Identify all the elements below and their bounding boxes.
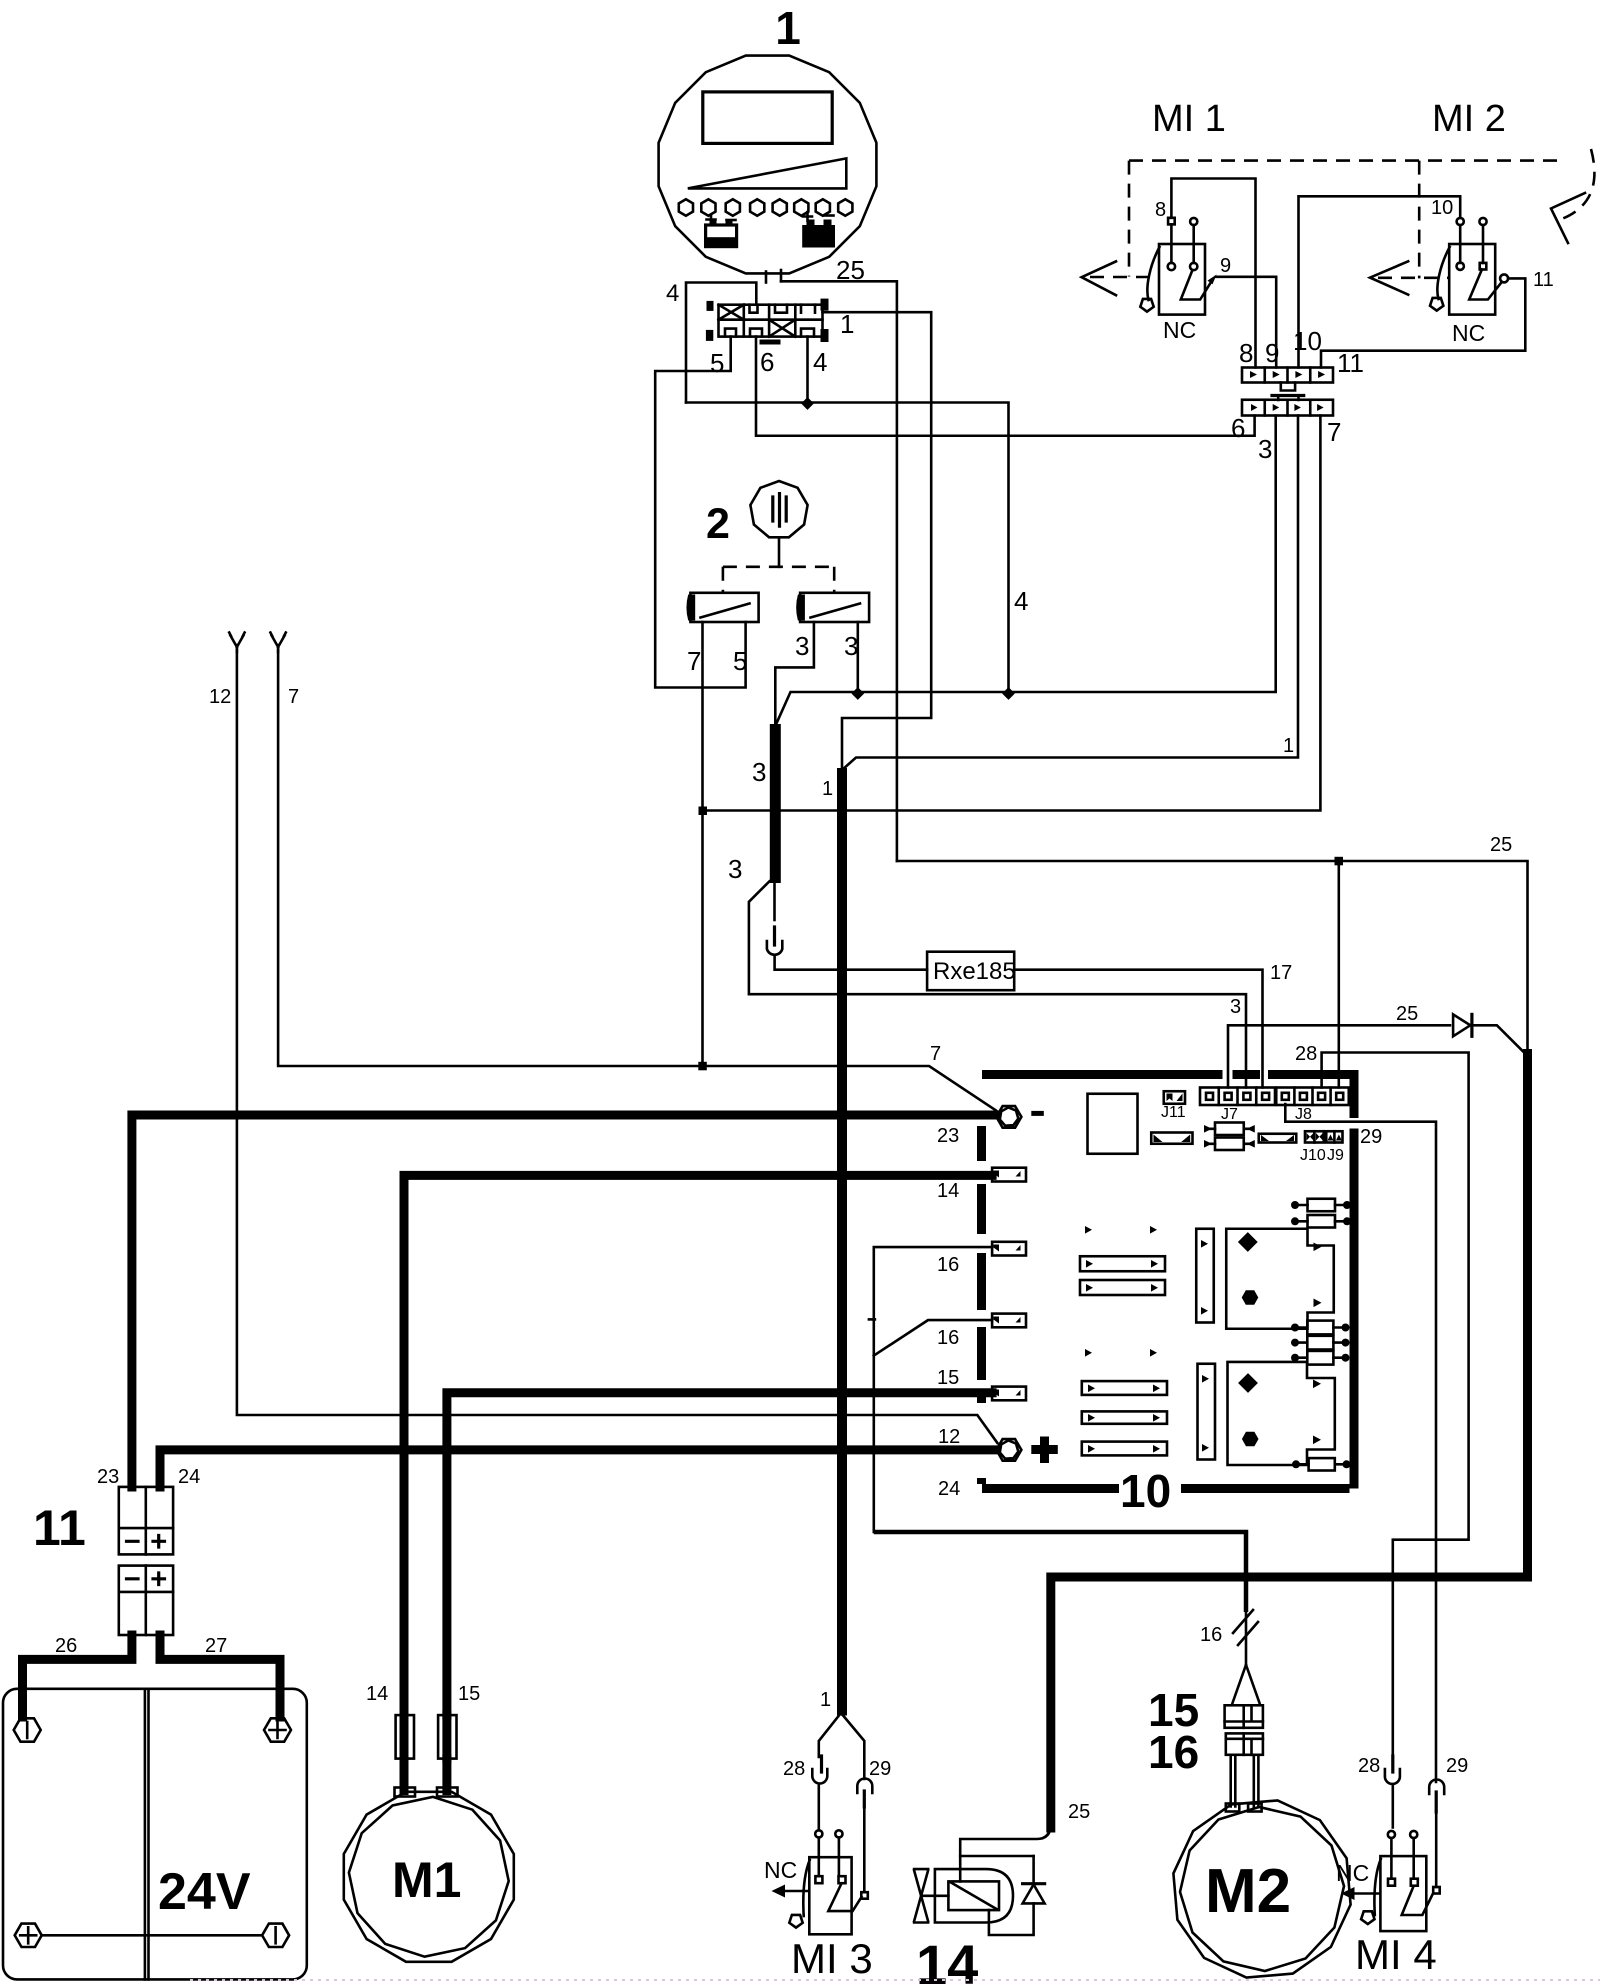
svg-text:16: 16 <box>1200 1624 1222 1646</box>
reed switch left <box>686 593 758 622</box>
svg-text:29: 29 <box>1446 1755 1468 1777</box>
MI3 pin wires <box>819 1784 865 1892</box>
svg-text:7: 7 <box>930 1043 941 1065</box>
wire 3 right switch left pin <box>775 622 814 726</box>
gauge level triangle <box>688 158 847 188</box>
wire gauge left lead <box>765 272 768 283</box>
fuse 14 <box>396 1715 414 1759</box>
unit 14 diode branch <box>989 1856 1034 1935</box>
wire fork 7 <box>270 633 285 653</box>
svg-text:NC: NC <box>1452 320 1485 346</box>
svg-text:J11: J11 <box>1161 1104 1186 1121</box>
PCB plus terminal bolt <box>996 1439 1021 1461</box>
svg-text:3: 3 <box>728 854 742 884</box>
arrow NC (MI4) <box>1352 1892 1380 1895</box>
scan artifact dots <box>190 1979 1600 1981</box>
PCB resistor trio right <box>1291 1321 1350 1365</box>
svg-text:12: 12 <box>938 1426 960 1448</box>
PCB slot component lower <box>1198 1364 1216 1460</box>
svg-text:NC: NC <box>1336 1860 1369 1886</box>
dashed curve arrow (top right) <box>1559 149 1594 220</box>
wire 17 hook to Rxe185 <box>775 957 928 970</box>
wire 1 thick to MI3 <box>837 768 847 1716</box>
svg-text:25: 25 <box>1068 1801 1090 1823</box>
MI3 lever <box>828 1885 861 1912</box>
svg-text:23: 23 <box>937 1125 959 1147</box>
junction 3/pin <box>851 687 864 700</box>
svg-text:MI 2: MI 2 <box>1432 98 1506 140</box>
svg-text:24V: 24V <box>158 1863 251 1921</box>
PCB unit 10 border top <box>982 1070 1350 1079</box>
svg-text:6: 6 <box>1231 413 1245 443</box>
svg-text:8: 8 <box>1239 338 1253 368</box>
connector J8 <box>1276 1088 1349 1106</box>
sensor unit 2 (octagon) <box>750 481 807 537</box>
svg-text:7: 7 <box>1327 417 1341 447</box>
connector 29 (MI4) <box>1429 1780 1444 1812</box>
svg-text:25: 25 <box>1396 1003 1418 1025</box>
unit 14 coil <box>948 1881 999 1910</box>
PCB border left (dashes) <box>977 1126 986 1484</box>
svg-text:3: 3 <box>844 631 858 661</box>
svg-text:1: 1 <box>1283 735 1294 757</box>
svg-text:7: 7 <box>687 646 701 676</box>
wire 4 horizontal bus <box>686 403 1009 694</box>
connector 28 (MI4) <box>1385 1756 1400 1784</box>
diode (unit 14) <box>1023 1884 1045 1904</box>
wire 1 from valve to right <box>823 312 932 769</box>
svg-text:8: 8 <box>1155 199 1166 221</box>
MI4 body <box>1380 1856 1426 1931</box>
wire M2 leads <box>1231 1755 1259 1807</box>
svg-text:11: 11 <box>1533 269 1554 291</box>
svg-text:28: 28 <box>1358 1755 1380 1777</box>
wire 17 Rxe185 to J7 <box>1014 970 1262 1088</box>
battery terminal top left <box>14 1718 41 1741</box>
svg-text:NC: NC <box>764 1857 797 1883</box>
wire 25 curve into 14 <box>960 1824 1051 1881</box>
PCB big relay square <box>1088 1094 1138 1154</box>
Rxe185 box <box>927 952 1014 991</box>
strip lower pin glyphs <box>1251 404 1324 411</box>
svg-text:29: 29 <box>869 1758 891 1780</box>
wire gauge right lead <box>780 270 783 281</box>
wire 3 thick segment <box>770 724 781 883</box>
wire 16 to M2 <box>874 1532 1246 1612</box>
gauge battery icon left <box>706 215 737 247</box>
svg-text:14: 14 <box>916 1933 978 1987</box>
valve block unit (bottom row) <box>719 320 823 337</box>
connector (wire 3 inline) <box>767 927 782 955</box>
PCB tab 16a <box>992 1242 1026 1256</box>
svg-text:7: 7 <box>288 686 299 708</box>
wire 1 fork <box>819 1713 865 1779</box>
wire 15 fuse to motor <box>442 1759 451 1791</box>
svg-text:4: 4 <box>1014 586 1028 616</box>
PCB relay 2 <box>1228 1362 1335 1465</box>
svg-text:M1: M1 <box>392 1852 461 1908</box>
svg-text:25: 25 <box>1490 834 1512 856</box>
svg-text:3: 3 <box>752 757 766 787</box>
PCB bar component c <box>1082 1381 1167 1395</box>
svg-text:1: 1 <box>820 1689 831 1711</box>
PCB border right <box>1350 1070 1359 1489</box>
connector J7 <box>1200 1088 1275 1106</box>
wire 25 down from gauge box <box>781 281 897 861</box>
connector 11 upper half <box>119 1487 173 1555</box>
microswitch MI2 <box>1430 218 1508 315</box>
strip mating bracket <box>1281 383 1295 391</box>
svg-text:J10: J10 <box>1300 1147 1326 1164</box>
svg-text:3: 3 <box>795 631 809 661</box>
dashed drop MI1 <box>1128 161 1131 277</box>
MI3 body <box>809 1857 851 1934</box>
M1 terminals <box>395 1788 416 1797</box>
svg-text:16: 16 <box>937 1327 959 1349</box>
PCB minus terminal bolt <box>996 1106 1021 1128</box>
connector 29 (MI3) <box>857 1779 872 1807</box>
svg-text:28: 28 <box>1295 1043 1317 1065</box>
PCB slot component upper <box>1196 1229 1214 1323</box>
wire 24 thick <box>160 1450 996 1487</box>
wire 15 thick <box>447 1393 992 1715</box>
wire 25 to J8 <box>1338 861 1341 1088</box>
svg-text:6: 6 <box>760 347 774 377</box>
connector 15 (M2) <box>1225 1705 1263 1728</box>
svg-text:15: 15 <box>937 1367 959 1389</box>
junction 7/switch <box>698 1062 707 1071</box>
wire 8 MI1 to strip <box>1171 179 1255 368</box>
PCB resistor pair right top <box>1291 1199 1351 1228</box>
valve ground bar <box>760 340 781 345</box>
junction 3/4 <box>1002 687 1015 700</box>
PCB socket bar left <box>1151 1133 1192 1144</box>
svg-text:MI 4: MI 4 <box>1355 1931 1437 1978</box>
svg-text:16: 16 <box>1148 1726 1199 1778</box>
wire 3 to J7 via bypass <box>749 881 1246 1087</box>
svg-text:23: 23 <box>97 1466 119 1488</box>
svg-text:10: 10 <box>1293 326 1322 356</box>
svg-text:2: 2 <box>706 500 730 548</box>
PCB bar component b <box>1080 1280 1165 1295</box>
svg-text:NC: NC <box>1163 317 1196 343</box>
connector 11 lower half <box>119 1566 173 1635</box>
svg-text:J7: J7 <box>1221 1106 1238 1123</box>
svg-text:1: 1 <box>822 778 833 800</box>
microswitch MI1 <box>1140 218 1216 315</box>
strip mating bar <box>1272 394 1304 397</box>
svg-text:12: 12 <box>209 686 231 708</box>
svg-text:MI 3: MI 3 <box>791 1935 873 1982</box>
wire 6 valve down <box>756 337 1255 436</box>
svg-text:15: 15 <box>458 1683 480 1705</box>
svg-text:Rxe185: Rxe185 <box>933 958 1016 985</box>
svg-text:11: 11 <box>33 1500 86 1556</box>
wire 12 left vertical <box>237 650 998 1443</box>
wire 16 fork to connector <box>1233 1612 1260 1703</box>
PCB relay 1 <box>1226 1229 1334 1329</box>
PCB socket bar right <box>1259 1134 1297 1143</box>
gauge battery icon right <box>802 212 835 248</box>
svg-text:M2: M2 <box>1205 1857 1291 1926</box>
wire fork 12 <box>229 633 244 653</box>
svg-text:3: 3 <box>1258 434 1272 464</box>
junction 4 <box>801 397 814 410</box>
wire 25 J7 branch <box>1228 1025 1450 1087</box>
svg-text:24: 24 <box>178 1466 200 1488</box>
svg-text:J9: J9 <box>1327 1147 1344 1164</box>
gauge display <box>703 92 832 143</box>
PCB bar component e <box>1082 1442 1167 1456</box>
svg-text:11: 11 <box>1337 348 1364 378</box>
wire 26 thick <box>23 1635 132 1717</box>
minus sign <box>1031 1111 1044 1116</box>
PCB resistor bottom right <box>1292 1458 1351 1470</box>
svg-text:29: 29 <box>1360 1126 1382 1148</box>
svg-text:4: 4 <box>813 347 827 377</box>
junction 7 <box>699 807 708 816</box>
MI3 actuator <box>803 1860 809 1916</box>
arrow NC (MI3) <box>783 1890 808 1893</box>
svg-text:28: 28 <box>783 1758 805 1780</box>
connector J9 <box>1326 1131 1342 1142</box>
wire 3 horizontal bus <box>775 416 1275 727</box>
strip upper pin glyphs <box>1250 371 1325 378</box>
wire 14 fuse to motor <box>400 1759 409 1791</box>
sensor stem <box>778 537 781 567</box>
PCB pin pair top <box>1085 1226 1157 1234</box>
battery terminal bottom right <box>262 1924 289 1947</box>
svg-text:MI 1: MI 1 <box>1152 98 1226 140</box>
svg-text:10: 10 <box>1431 197 1453 219</box>
wire 29 from J8 pin1 <box>1285 1104 1436 1782</box>
wire 25 horizontal <box>897 861 1528 1055</box>
wire 4 loop left of valve <box>686 283 756 403</box>
svg-text:5: 5 <box>710 348 724 378</box>
PCB resistor pair center <box>1204 1123 1255 1151</box>
valve tiny pin marks <box>707 301 714 311</box>
dashed arrow MI2 <box>1378 276 1449 279</box>
dashed bus top <box>1129 159 1558 162</box>
gauge buttons <box>679 199 693 215</box>
wire 28 J8 to MI4 <box>1322 1053 1469 1758</box>
gauge unit 1 body <box>659 56 877 274</box>
svg-text:25: 25 <box>836 255 865 285</box>
MI4 actuator <box>1374 1859 1380 1915</box>
wire 3 connector upper lead <box>773 883 776 920</box>
connector strip lower <box>1242 400 1333 416</box>
svg-text:4: 4 <box>666 280 679 307</box>
valve block unit (top row) <box>719 305 823 320</box>
fuse 15 <box>438 1715 456 1759</box>
svg-text:27: 27 <box>205 1635 227 1657</box>
svg-text:17: 17 <box>1270 962 1292 984</box>
connector 16 (M2) <box>1226 1733 1263 1754</box>
PCB bar component d <box>1082 1411 1167 1423</box>
connector 28 (MI3) <box>812 1756 827 1784</box>
wire 4 valve down to bus <box>806 337 809 404</box>
tick 16 <box>869 1318 875 1321</box>
connector J11 <box>1164 1091 1185 1104</box>
wire 1 thin jog <box>842 416 1298 771</box>
svg-text:3: 3 <box>1230 996 1241 1018</box>
PCB pin pair bottom <box>1085 1349 1157 1357</box>
svg-text:5: 5 <box>733 646 747 676</box>
dashed arrow MI1 <box>1090 276 1160 279</box>
svg-text:26: 26 <box>55 1635 77 1657</box>
PCB tab 14 <box>992 1168 1026 1182</box>
motor M2 <box>1173 1800 1350 1977</box>
PCB tab 16b <box>992 1314 1026 1328</box>
wire 9 MI1 to strip <box>1216 277 1276 368</box>
battery 24V body <box>3 1689 307 1980</box>
battery bottom bus <box>42 1934 262 1937</box>
diode (wire 25) <box>1453 1014 1472 1036</box>
wire 27 thick <box>160 1635 280 1717</box>
plus sign <box>1031 1437 1058 1464</box>
svg-text:9: 9 <box>1220 255 1231 277</box>
MI4 pin wires <box>1393 1784 1436 1887</box>
connector strip upper <box>1242 368 1333 383</box>
unit 14 coil top lead <box>960 1855 1033 1858</box>
wire 25 thick path <box>1051 1054 1528 1829</box>
wire 7 horizontal bus <box>703 416 1321 811</box>
PCB bar component a <box>1080 1256 1165 1271</box>
PCB border bottom <box>982 1484 1350 1493</box>
wire 16 slashes <box>1233 1610 1258 1645</box>
svg-text:10: 10 <box>1120 1465 1171 1517</box>
wire 16b thin <box>874 1320 992 1356</box>
wire 7 left vertical <box>278 650 996 1111</box>
throttle symbol (unit 14) <box>914 1869 948 1922</box>
wire 14 thick <box>404 1175 992 1715</box>
battery terminal top right <box>264 1718 291 1741</box>
battery terminal bottom left <box>15 1924 42 1947</box>
svg-text:24: 24 <box>938 1478 960 1500</box>
svg-text:1: 1 <box>775 2 801 54</box>
unit 14 outer loop <box>935 1869 1013 1922</box>
dashed drop MI2 <box>1418 161 1421 279</box>
wire 3 right switch right pin <box>856 622 859 694</box>
wire 7 left switch down <box>701 622 704 1066</box>
motor M1 <box>344 1792 514 1962</box>
valve pin glyphs <box>725 305 815 337</box>
svg-text:9: 9 <box>1265 338 1279 368</box>
wire 25 diode to corner <box>1472 1025 1525 1053</box>
sensor vanes <box>773 494 786 526</box>
wire 16a thin <box>874 1247 992 1532</box>
wire 11 MI2 to strip <box>1321 278 1525 367</box>
svg-text:14: 14 <box>937 1180 959 1202</box>
MI4 lever <box>1402 1887 1433 1915</box>
dashed link of unit 2 <box>723 565 834 568</box>
reed switch right <box>796 593 869 622</box>
wire 5 valve to switch <box>655 337 745 688</box>
svg-text:16: 16 <box>937 1254 959 1276</box>
wire 23 thick <box>132 1115 997 1487</box>
connector J10 <box>1305 1131 1324 1142</box>
junction 25 <box>1335 857 1344 866</box>
battery divider <box>145 1689 149 1980</box>
wire 10 MI2 to strip <box>1299 196 1461 367</box>
PCB tab 15 <box>992 1387 1026 1401</box>
svg-text:14: 14 <box>366 1683 388 1705</box>
M2 terminals <box>1226 1804 1240 1812</box>
